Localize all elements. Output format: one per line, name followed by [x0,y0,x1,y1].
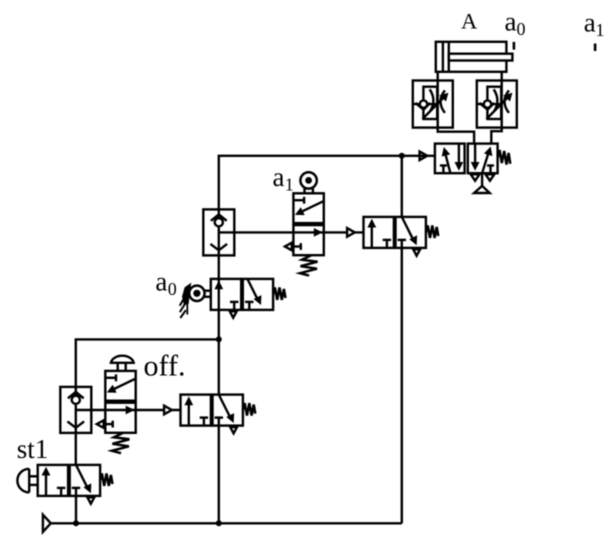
V3 right chamber: exhaust path and blocked port [215,395,235,426]
wire S2 bottom to st1 valve [75,433,77,465]
V2 left chamber: flow arrow and blocked port [367,219,391,248]
valve V2 (3/2 pilot valve) body [364,217,426,248]
V1 exhaust triangle (port 3) [486,174,495,180]
wire V2 output up to rail [401,156,403,217]
st1 right chamber: exhaust path and blocked port [72,465,92,496]
V3 pilot triangle [164,406,172,415]
svg-text:off.: off. [144,349,186,382]
flow control valve FC2 (right one-way flow control) [477,81,517,128]
a0 right chamber: exhaust path and blocked port [245,279,261,310]
svg-text:A: A [461,9,478,34]
wire V3 supply down to bottom rail [218,426,220,524]
junction node rail / st1 [73,520,79,526]
st1 exhaust triangle [87,497,94,503]
wire S1 bottom to a0 valve [218,255,220,281]
V1 return spring (right) [498,150,511,165]
wire S1 output row to valve V2 (through a1 valve) [219,231,364,233]
a0 left chamber: open flow arrow on port line [214,281,238,310]
V2 return spring [426,226,438,238]
V1 left chamber arrows [440,144,463,174]
st1 left chamber: flow arrow and blocked port [42,467,66,496]
off return spring (below) [112,433,129,453]
svg-text:a: a [155,266,167,296]
V1 pilot triangle (left) [420,152,428,161]
valve V3 (3/2 pilot valve) body [181,395,243,426]
svg-text:a: a [273,162,285,192]
a0 return spring [273,288,285,300]
valve off (3/2 palm button valve) body [105,371,135,433]
wire junction left and down to shuttle S2 [76,339,219,387]
wire bottom supply rail [51,522,402,524]
off bottom chamber: flow arrow [126,406,135,415]
svg-text:1: 1 [596,20,605,40]
svg-text:1: 1 [285,175,294,195]
junction node below a0 [216,336,222,342]
V3 return spring [243,403,255,415]
valve a1 (3/2 roller valve) body [293,193,323,255]
supply source triangle (bottom rail) [43,515,51,532]
a0 exhaust triangle below left chamber [230,311,237,317]
svg-text:a: a [505,7,517,37]
a1 return spring (below) [300,255,318,275]
a0 roller mount (wall with hatching) [180,283,192,318]
svg-text:st1: st1 [17,434,49,464]
st1 push button actuator [17,469,37,493]
st1 return spring [100,474,112,486]
junction node at rail and V2 output [399,153,405,159]
svg-text:a: a [584,8,596,38]
V2 exhaust triangle [413,249,420,255]
V1 supply line and source triangle [474,173,490,193]
V3 exhaust triangle [230,427,237,433]
valve a0 (3/2 roller valve) body [211,279,273,310]
V3 left chamber: flow arrow and blocked port [184,396,208,425]
V1 exhaust triangle (port 5) [471,174,480,180]
wire V2 supply down to bottom rail [401,248,403,523]
label a1 (roller valve) [273,162,294,195]
wire a0 bottom to junction [218,310,220,395]
junction node rail / V3 [216,520,222,526]
valve a1 roller actuator [300,172,316,193]
valve st1 (3/2 push button valve) body [38,465,100,496]
label a0 (roller valve) [155,266,176,299]
a1 top chamber: blocked port and exhaust path [293,197,323,215]
valve V1 (5/2 pilot valve) body [435,144,498,174]
a0 position tick [513,42,516,50]
a1 bottom chamber: flow arrow [314,228,323,237]
off valve mushroom button [111,356,134,371]
shuttle valve S2 [60,387,91,433]
off exhaust port with triangle [97,420,113,428]
wire top rail (cascade bus) [219,156,435,210]
a1 exhaust port with triangle [285,243,301,251]
V2 pilot triangle [347,228,355,237]
a1 position tick [594,44,597,52]
wire st1 supply down to bottom rail [75,496,77,523]
label a0 (cylinder position) [505,7,526,40]
V2 right chamber: exhaust path and blocked port [398,217,418,248]
wire cylinder right port through flow control FC2 [491,72,501,144]
wire S2 output row to valve V3 (through off valve) [76,409,181,411]
a0 roller actuator [189,286,211,301]
svg-text:0: 0 [168,279,177,299]
cylinder piston rod [449,54,513,61]
wire cylinder left port through flow control FC1 [438,72,474,144]
cylinder piston [443,42,449,72]
cylinder A body [436,42,507,72]
shuttle valve S1 [203,209,234,255]
label a1 (cylinder position) [584,8,605,41]
V1 right chamber arrows [471,144,494,174]
flow control valve FC1 (left one-way flow control) [413,81,453,128]
off top chamber: blocked port and exhaust path [105,374,135,392]
svg-text:0: 0 [517,19,526,39]
